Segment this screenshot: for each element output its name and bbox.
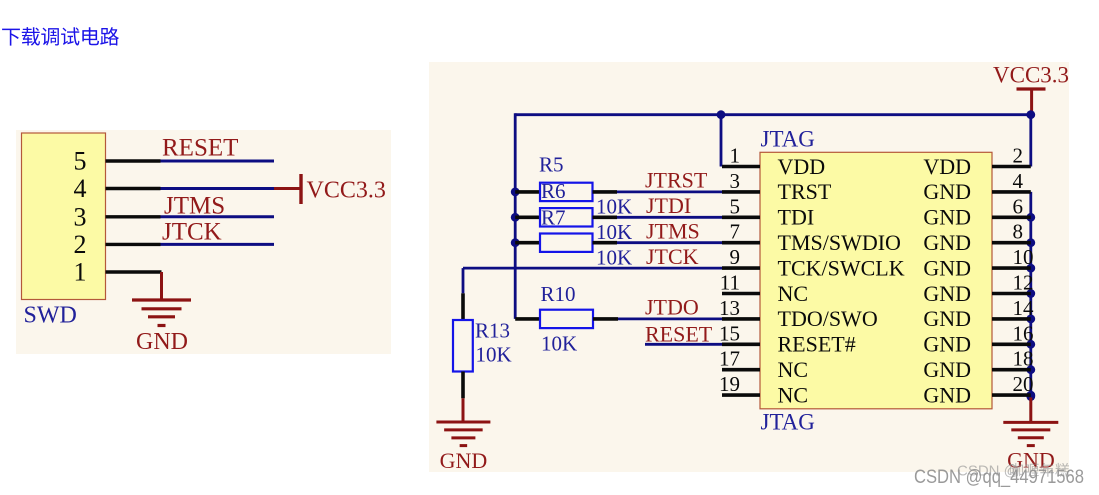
connector SWD body bbox=[22, 133, 106, 300]
svg-text:SWD: SWD bbox=[24, 303, 77, 329]
JTAG pin 15 stub bbox=[722, 342, 760, 346]
junction pull-up rail bbox=[511, 238, 520, 247]
junction GND chain bbox=[1026, 365, 1035, 374]
resistor R13 bbox=[453, 320, 473, 398]
svg-text:10K: 10K bbox=[596, 245, 632, 269]
SWD pin 3 stub bbox=[106, 215, 161, 218]
junction GND chain bbox=[1026, 391, 1035, 400]
svg-text:CSDN @qq_44971568: CSDN @qq_44971568 bbox=[914, 467, 1084, 488]
connector JTAG body bbox=[760, 152, 992, 409]
svg-text:TRST: TRST bbox=[778, 179, 832, 204]
JTAG pin 8 stub bbox=[992, 241, 1031, 245]
svg-text:17: 17 bbox=[719, 347, 740, 371]
JTAG pin 3 stub bbox=[722, 190, 760, 194]
title 下载调试电路 bbox=[2, 27, 119, 45]
junction GND chain bbox=[1026, 340, 1035, 349]
svg-text:8: 8 bbox=[1013, 220, 1024, 244]
svg-text:NC: NC bbox=[778, 382, 809, 407]
svg-text:10: 10 bbox=[1013, 245, 1034, 269]
JTAG pin 19 stub bbox=[722, 393, 760, 397]
wire pin1 to ground bbox=[160, 272, 163, 300]
svg-text:JTCK: JTCK bbox=[646, 244, 699, 269]
svg-text:13: 13 bbox=[719, 296, 740, 320]
svg-text:GND: GND bbox=[923, 382, 971, 407]
JTAG pin 1 stub bbox=[722, 165, 760, 169]
JTAG pin 16 stub bbox=[992, 342, 1031, 346]
ground symbol below R13 bbox=[436, 422, 490, 446]
JTAG pin 7 stub bbox=[722, 241, 760, 245]
svg-text:JTDO: JTDO bbox=[645, 295, 699, 320]
wire JTDO to pin13 bbox=[618, 317, 722, 320]
wire VCC to pin1 bbox=[720, 115, 723, 167]
lead R13 top bbox=[461, 293, 465, 320]
junction pull-up rail bbox=[511, 213, 520, 222]
svg-text:TDO/SWO: TDO/SWO bbox=[778, 306, 878, 331]
JTAG pin 13 stub bbox=[722, 317, 760, 321]
svg-text:R13: R13 bbox=[475, 319, 510, 343]
wire R13 to ground bbox=[462, 398, 465, 422]
svg-text:19: 19 bbox=[719, 372, 740, 396]
svg-text:GND: GND bbox=[923, 255, 971, 280]
svg-text:3: 3 bbox=[74, 202, 87, 231]
svg-text:5: 5 bbox=[74, 147, 87, 176]
junction GND chain bbox=[1026, 315, 1035, 324]
svg-text:R5: R5 bbox=[539, 153, 564, 177]
svg-text:3: 3 bbox=[730, 169, 741, 193]
svg-text:10K: 10K bbox=[596, 220, 632, 244]
svg-text:R7: R7 bbox=[541, 206, 566, 230]
svg-text:GND: GND bbox=[923, 306, 971, 331]
ground symbol left bbox=[132, 300, 191, 326]
JTAG pin 9 stub bbox=[722, 266, 760, 270]
wire RESET net bbox=[161, 160, 275, 163]
wire VCC net bbox=[161, 187, 275, 190]
wire VCC rail top bbox=[515, 113, 1031, 116]
wire pin20 to ground bbox=[1029, 397, 1032, 422]
svg-text:GND: GND bbox=[136, 329, 188, 355]
wire RESET to pin15 bbox=[645, 343, 722, 346]
svg-text:TDI: TDI bbox=[778, 205, 815, 230]
svg-text:VDD: VDD bbox=[778, 154, 826, 179]
svg-text:10K: 10K bbox=[476, 343, 512, 367]
wire TCK corner down bbox=[462, 268, 465, 293]
svg-text:14: 14 bbox=[1013, 296, 1035, 320]
JTAG pin 6 stub bbox=[992, 216, 1031, 220]
SWD pin 1 stub bbox=[106, 270, 162, 273]
svg-text:NC: NC bbox=[778, 281, 809, 306]
JTAG pin 12 stub bbox=[992, 292, 1031, 296]
JTAG pin 20 stub bbox=[992, 393, 1031, 397]
svg-text:15: 15 bbox=[719, 321, 740, 345]
resistor R10 bbox=[515, 310, 618, 328]
svg-text:20: 20 bbox=[1013, 372, 1034, 396]
junction pull-up rail bbox=[511, 188, 520, 197]
svg-text:1: 1 bbox=[730, 144, 741, 168]
wire JTCK net bbox=[161, 243, 275, 246]
svg-text:11: 11 bbox=[720, 271, 740, 295]
JTAG pin 18 stub bbox=[992, 368, 1031, 372]
svg-text:NC: NC bbox=[778, 357, 809, 382]
svg-text:RESET#: RESET# bbox=[778, 332, 856, 357]
svg-text:7: 7 bbox=[730, 220, 741, 244]
svg-text:10K: 10K bbox=[541, 332, 577, 356]
JTAG pin 5 stub bbox=[722, 216, 760, 220]
svg-text:5: 5 bbox=[730, 194, 741, 218]
right schematic background bbox=[429, 62, 1069, 472]
svg-text:JTRST: JTRST bbox=[645, 168, 708, 193]
junction GND stem bbox=[1026, 392, 1035, 401]
svg-text:GND: GND bbox=[923, 230, 971, 255]
resistor R5 bbox=[515, 183, 722, 201]
wire JTMS net bbox=[161, 215, 275, 218]
svg-text:9: 9 bbox=[730, 245, 741, 269]
wire GND chain right bbox=[1029, 192, 1032, 398]
resistor R7 bbox=[515, 234, 722, 252]
JTAG pin 17 stub bbox=[722, 368, 760, 372]
svg-text:TMS/SWDIO: TMS/SWDIO bbox=[778, 230, 901, 255]
ground symbol right bbox=[1003, 422, 1058, 445]
wire JTCK to pin9 bbox=[463, 267, 722, 270]
junction pin2/VCC rail bbox=[1026, 110, 1035, 119]
svg-text:2: 2 bbox=[74, 230, 87, 259]
resistor R6 bbox=[515, 208, 722, 226]
svg-text:6: 6 bbox=[1013, 194, 1024, 218]
SWD pin 5 stub bbox=[106, 159, 161, 162]
svg-text:18: 18 bbox=[1013, 347, 1034, 371]
svg-text:GND: GND bbox=[923, 281, 971, 306]
svg-text:VCC3.3: VCC3.3 bbox=[307, 178, 386, 204]
svg-text:R6: R6 bbox=[541, 179, 566, 203]
svg-text:JTAG: JTAG bbox=[761, 127, 815, 152]
junction GND chain bbox=[1026, 213, 1035, 222]
wire pull-up rail vertical bbox=[514, 113, 517, 319]
svg-text:12: 12 bbox=[1013, 271, 1034, 295]
JTAG pin 14 stub bbox=[992, 317, 1031, 321]
svg-text:1: 1 bbox=[74, 258, 87, 287]
wire VCC to pin2 bbox=[1029, 115, 1032, 167]
power symbol VCC3.3 left bbox=[274, 187, 300, 190]
JTAG pin 4 stub bbox=[992, 190, 1031, 194]
junction GND chain bbox=[1026, 264, 1035, 273]
svg-text:RESET: RESET bbox=[645, 322, 713, 347]
svg-text:GND: GND bbox=[440, 448, 488, 473]
svg-text:16: 16 bbox=[1013, 321, 1034, 345]
svg-text:GND: GND bbox=[923, 332, 971, 357]
svg-text:R10: R10 bbox=[541, 282, 576, 306]
svg-text:4: 4 bbox=[1013, 169, 1024, 193]
svg-text:TCK/SWCLK: TCK/SWCLK bbox=[778, 255, 905, 280]
svg-text:JTMS: JTMS bbox=[164, 193, 225, 220]
left schematic background bbox=[16, 130, 391, 354]
junction pin1/VCC rail bbox=[717, 110, 726, 119]
svg-text:RESET: RESET bbox=[162, 135, 238, 162]
junction GND chain bbox=[1026, 289, 1035, 298]
svg-text:GND: GND bbox=[923, 205, 971, 230]
SWD pin 2 stub bbox=[106, 243, 161, 246]
svg-text:2: 2 bbox=[1013, 144, 1024, 168]
svg-text:GND: GND bbox=[923, 357, 971, 382]
JTAG pin 11 stub bbox=[722, 292, 760, 296]
svg-text:VDD: VDD bbox=[923, 154, 971, 179]
svg-text:4: 4 bbox=[74, 174, 87, 203]
svg-text:JTAG: JTAG bbox=[761, 410, 815, 435]
SWD pin 4 stub bbox=[106, 187, 161, 190]
svg-text:JTDI: JTDI bbox=[646, 193, 691, 218]
svg-text:VCC3.3: VCC3.3 bbox=[993, 63, 1069, 88]
JTAG pin 2 stub bbox=[992, 165, 1031, 169]
svg-text:JTMS: JTMS bbox=[646, 219, 700, 244]
svg-text:10K: 10K bbox=[596, 195, 632, 219]
svg-text:JTCK: JTCK bbox=[162, 219, 222, 246]
junction GND chain bbox=[1026, 238, 1035, 247]
svg-text:GND: GND bbox=[923, 179, 971, 204]
JTAG pin 10 stub bbox=[992, 266, 1031, 270]
